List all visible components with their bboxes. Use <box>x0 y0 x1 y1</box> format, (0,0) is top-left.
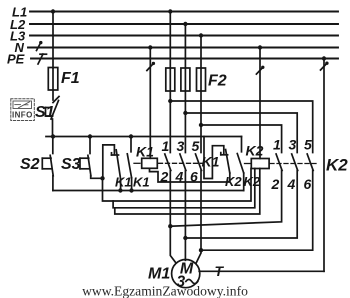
bus line L2 <box>30 23 338 25</box>
svg-text:4: 4 <box>287 176 296 192</box>
wire: motor lead U <box>170 226 176 263</box>
node: motor phase W junction <box>199 248 203 252</box>
wire: motor lead V <box>184 238 186 260</box>
mechanical linkage K1 <box>159 162 204 164</box>
wire: motor T terminal to PE drop <box>199 270 324 272</box>
node: S3 to rail <box>88 134 92 138</box>
svg-text:PE: PE <box>7 52 25 67</box>
node: L3 tap to fuse group F2 <box>199 33 203 37</box>
bus line PE <box>31 58 338 60</box>
linkage dash left of K1 coil <box>134 162 140 164</box>
node: PE tap <box>322 56 326 60</box>
control rail wire <box>46 136 242 138</box>
wire: motor lead W <box>196 250 201 263</box>
motor M1 <box>172 260 200 288</box>
node: L2 tap to fuse group F2 <box>183 22 187 26</box>
svg-text:2: 2 <box>271 176 280 192</box>
wire: L2 phase drop through fuse to contactor K1 pole 3 <box>184 24 186 153</box>
wire: K1 pole 4 output down <box>184 171 186 239</box>
rail A wire: S2 and latches bottom rail <box>53 190 244 192</box>
node: L1 tap for control circuit <box>51 9 55 13</box>
contactor K2 pole 5-6 contact <box>307 154 313 171</box>
mechanical linkage K2 <box>270 163 318 165</box>
bus line L1 <box>30 11 338 13</box>
linkage dash left of K2 coil <box>245 163 251 165</box>
wire: phase a over to K2 pole 5 <box>170 101 312 153</box>
svg-text:4: 4 <box>175 169 184 185</box>
bus line N <box>28 47 338 49</box>
svg-text:2: 2 <box>160 169 169 185</box>
contactor K2 pole 3-4 contact <box>292 154 298 171</box>
wire: K1 coil bottom to K2 aux 1 <box>150 168 230 182</box>
svg-text:INFO: INFO <box>12 111 33 120</box>
disconnect mark on K2 coil N wire <box>256 66 264 74</box>
svg-text:S2: S2 <box>20 156 40 173</box>
wire: N down to K2 coil <box>259 48 261 159</box>
bus line L3 <box>30 35 338 37</box>
wire: N down to K1 coil <box>149 48 151 159</box>
EZ INFO watermark stamp <box>11 99 35 121</box>
wire: PE down to motor terminal T <box>323 59 325 272</box>
svg-text:1: 1 <box>273 137 281 153</box>
svg-text:3: 3 <box>289 137 297 153</box>
node: N tap for K2 coil <box>258 45 262 49</box>
svg-text:T: T <box>215 263 225 279</box>
node: motor phase V junction <box>183 236 187 240</box>
node: phase tap c to K2 <box>199 123 203 127</box>
wire: L1 phase drop through fuse to contactor K1 pole 1 <box>169 12 171 153</box>
node: L1 tap to fuse group F2 <box>168 9 172 13</box>
wire: L1 down to fuse F1 <box>52 12 54 69</box>
wire: K1 pole 2 output down <box>169 171 171 227</box>
svg-text:F1: F1 <box>61 70 80 87</box>
node: K1 aux 1 to rail A <box>118 188 122 192</box>
fuse F1 <box>48 68 58 91</box>
auxiliary contact K2 aux 1 <box>221 150 230 174</box>
auxiliary contact K1 aux 1 <box>112 150 121 191</box>
wire: S3 node down to K2 coil (line 1) <box>103 169 252 202</box>
auxiliary contact K1 aux 2 <box>127 137 131 191</box>
node: motor phase U junction <box>168 224 172 228</box>
svg-text:K1: K1 <box>133 175 150 190</box>
node: S1 to rail <box>51 134 55 138</box>
node: phase tap a to K2 <box>168 99 172 103</box>
wire: crossover U to K2 pole 2 <box>170 171 281 227</box>
wire: K1 pole 6 output down <box>200 171 202 251</box>
coil K1 <box>142 158 158 168</box>
wire: crossover W to K2 pole 6 <box>201 171 313 251</box>
svg-text:S3: S3 <box>61 156 81 173</box>
disconnect mark on N drop wire <box>147 62 155 71</box>
wire: staircase line 2 to K2 coil <box>113 169 255 208</box>
node: S3 output junction <box>100 176 104 180</box>
svg-text:K2: K2 <box>326 156 348 175</box>
switch S1 (NC pushbutton) <box>46 97 60 137</box>
svg-text:5: 5 <box>304 137 312 153</box>
node: N tap for K1 coil <box>148 45 152 49</box>
node: K1 aux 2 to rail A <box>129 188 133 192</box>
svg-text:K2: K2 <box>225 174 242 189</box>
auxiliary contact K2 aux 2 <box>237 137 243 191</box>
svg-text:5: 5 <box>192 138 200 154</box>
svg-text:F2: F2 <box>208 73 227 90</box>
wire: phase b over to K2 pole 3 <box>185 113 297 153</box>
wire: staircase line 3 to K2 coil <box>115 169 260 215</box>
node: K1 aux 2 to rail <box>129 134 133 138</box>
fuse F2 pole a <box>166 68 175 91</box>
pushbutton S3 <box>80 137 103 179</box>
wire: phase c over to K2 pole 1 <box>201 125 282 153</box>
contactor K1 pole 5-6 contact <box>196 154 202 171</box>
N conductor mark <box>37 41 43 51</box>
PE conductor mark <box>38 54 47 64</box>
svg-text:S1: S1 <box>35 104 55 121</box>
svg-text:K2: K2 <box>246 143 264 159</box>
fuse F2 pole b <box>181 68 190 91</box>
contactor K2 pole 1-2 contact <box>276 154 282 171</box>
wire: crossover V to K2 pole 4 <box>185 171 297 239</box>
svg-text:6: 6 <box>190 169 198 185</box>
svg-text:www.EgzaminZawodowy.info: www.EgzaminZawodowy.info <box>82 284 248 298</box>
node: phase tap b to K2 <box>183 111 187 115</box>
wire: S3 node up and over to K1 aux 1 <box>103 145 115 178</box>
contactor K1 pole 3-4 contact <box>180 154 186 171</box>
svg-text:K1: K1 <box>136 144 154 160</box>
wire: L3 phase drop through fuse to contactor K1 pole 5 <box>200 36 202 153</box>
svg-text:M1: M1 <box>148 266 170 283</box>
disconnect mark on PE drop wire <box>321 62 329 71</box>
svg-text:K1: K1 <box>115 175 132 190</box>
svg-text:3: 3 <box>177 138 185 154</box>
svg-text:K2: K2 <box>244 174 261 189</box>
fuse F2 pole c <box>197 68 206 91</box>
contactor K1 pole 1-2 contact <box>165 154 171 171</box>
svg-text:1: 1 <box>162 138 170 154</box>
coil K2 <box>251 159 269 169</box>
svg-text:6: 6 <box>304 176 312 192</box>
pushbutton S2 <box>42 137 53 191</box>
wire: fuse F1 to switch S1 <box>52 90 54 100</box>
wire: rail U-dip to K2 aux 1 top <box>204 137 224 179</box>
